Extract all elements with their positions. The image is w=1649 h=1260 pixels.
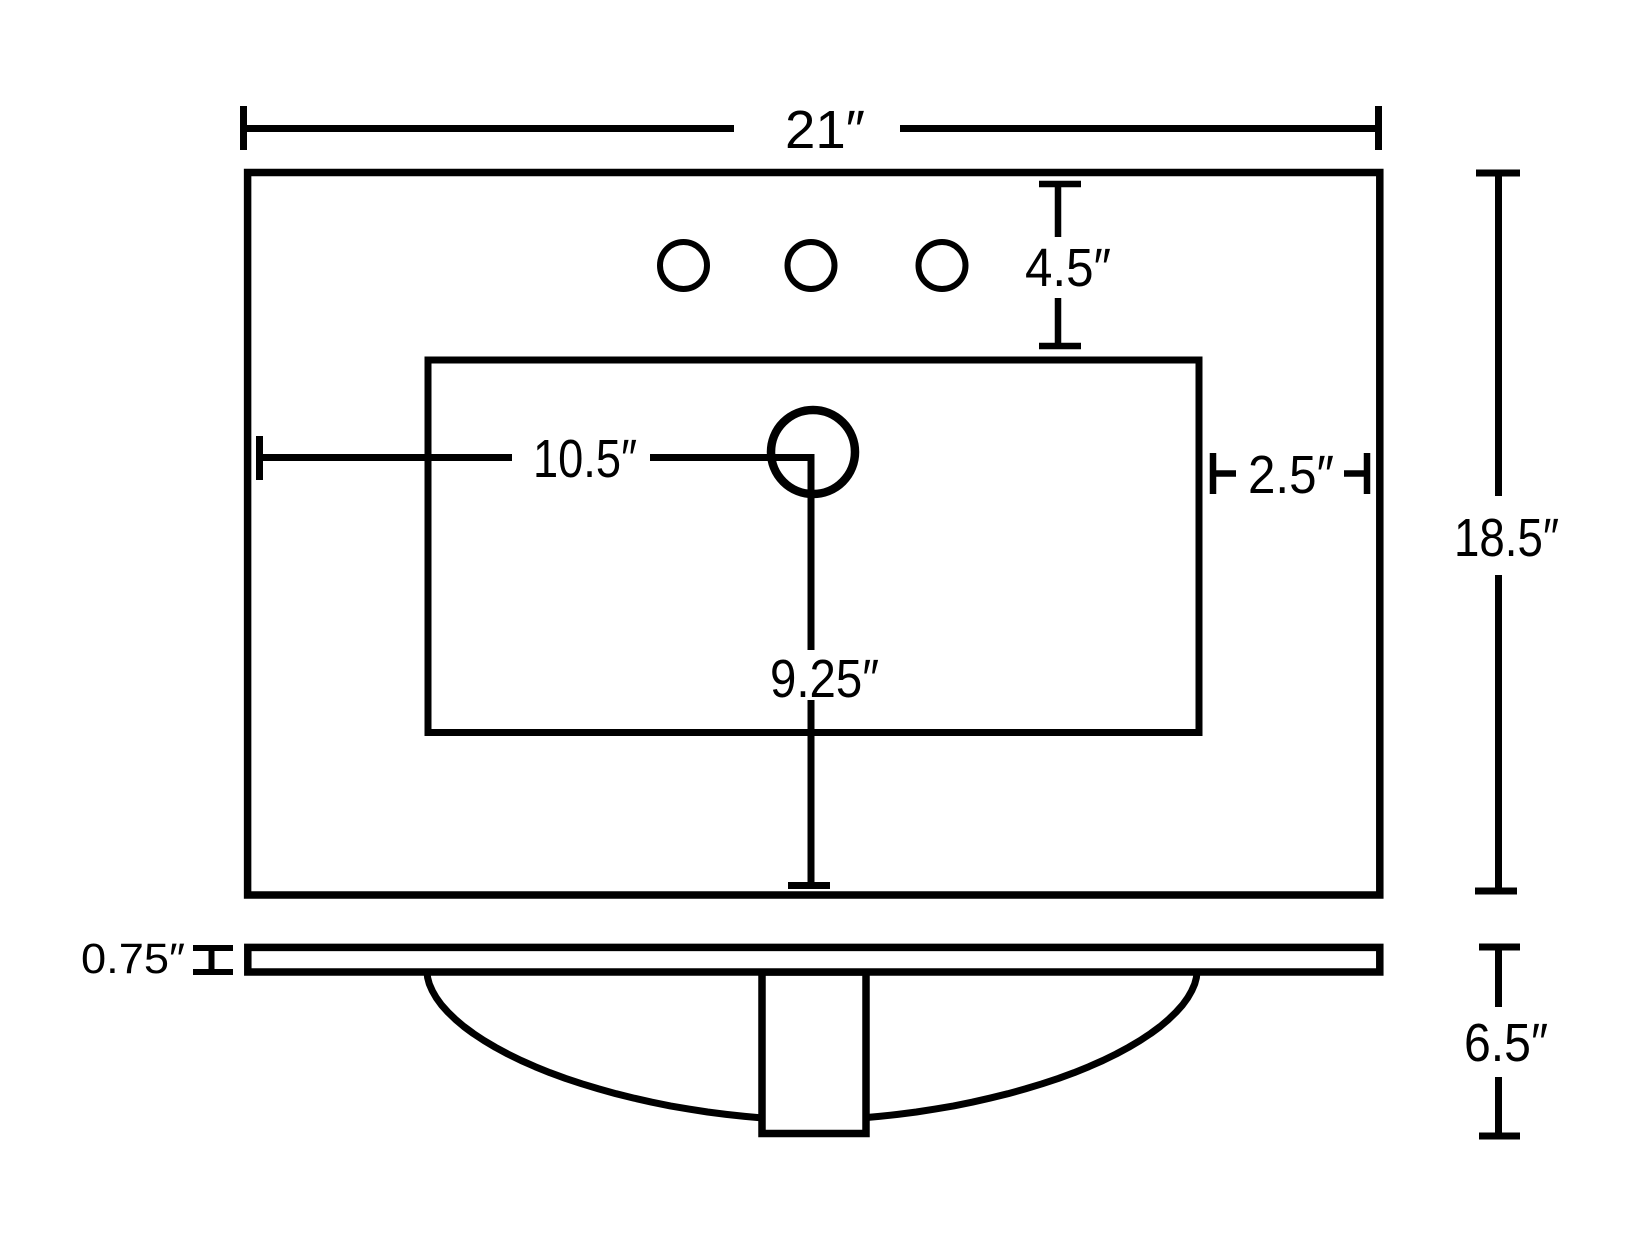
- dimension 21" right tick: [1375, 106, 1382, 150]
- dimension 4.5" bottom tick: [1039, 343, 1081, 350]
- svg-text:18.5″: 18.5″: [1454, 508, 1559, 568]
- dimension 0.75" top cap: [193, 945, 233, 951]
- dimension 6.5" bottom tick: [1479, 1133, 1520, 1140]
- dimension 2.5" left stub: [1213, 470, 1236, 477]
- dimension 2.5" right stub: [1344, 470, 1367, 477]
- dimension 10.5" left tick: [256, 436, 263, 480]
- dimension 18.5" line lower segment: [1495, 575, 1502, 889]
- svg-text:9.25″: 9.25″: [770, 649, 879, 709]
- dimension 6.5" line lower segment: [1495, 1077, 1502, 1134]
- dimension 9.25" bottom tick: [788, 882, 830, 889]
- drain hole circle: [771, 410, 855, 494]
- dimension 0.75" bar: [209, 948, 215, 972]
- dimension 2.5" left tick: [1210, 453, 1217, 494]
- dimension 9.25" line lower segment: [808, 700, 815, 884]
- countertop slab (side view): [248, 947, 1380, 972]
- svg-text:0.75″: 0.75″: [81, 935, 185, 983]
- dimension 9.25" line upper segment: [808, 458, 815, 651]
- dimension 4.5" top tick: [1039, 181, 1081, 188]
- drain pipe (side view): [762, 972, 866, 1134]
- dimension 10.5" line left segment: [260, 454, 513, 461]
- faucet hole left: [660, 242, 707, 289]
- faucet hole center: [788, 242, 835, 289]
- basin cutout rectangle: [428, 360, 1199, 733]
- dimension 6.5" line upper segment: [1495, 947, 1502, 1007]
- dimension 18.5" line upper segment: [1495, 173, 1502, 496]
- svg-text:2.5″: 2.5″: [1248, 445, 1334, 505]
- dimension 18.5" top tick: [1476, 170, 1520, 177]
- dimension 21" line left segment: [244, 125, 735, 132]
- dimension 10.5" line right segment: [650, 454, 815, 461]
- svg-text:4.5″: 4.5″: [1025, 238, 1111, 298]
- dimension 21" line right segment: [900, 125, 1379, 132]
- svg-text:10.5″: 10.5″: [533, 429, 637, 489]
- dimension 18.5" bottom tick: [1475, 888, 1517, 895]
- svg-text:6.5″: 6.5″: [1464, 1013, 1548, 1073]
- countertop outline (top view): [248, 173, 1380, 896]
- dimension 21" left tick: [240, 106, 247, 150]
- dimension 4.5" line lower segment: [1055, 298, 1062, 346]
- basin bowl profile (side view): [427, 972, 1197, 1120]
- dimension 4.5" line upper segment: [1055, 184, 1062, 237]
- dimension 0.75" bottom cap: [193, 969, 233, 975]
- faucet hole right: [919, 242, 966, 289]
- svg-text:21″: 21″: [785, 100, 865, 160]
- dimension 2.5" right tick: [1364, 453, 1371, 494]
- dimension 6.5" top tick: [1479, 944, 1520, 951]
